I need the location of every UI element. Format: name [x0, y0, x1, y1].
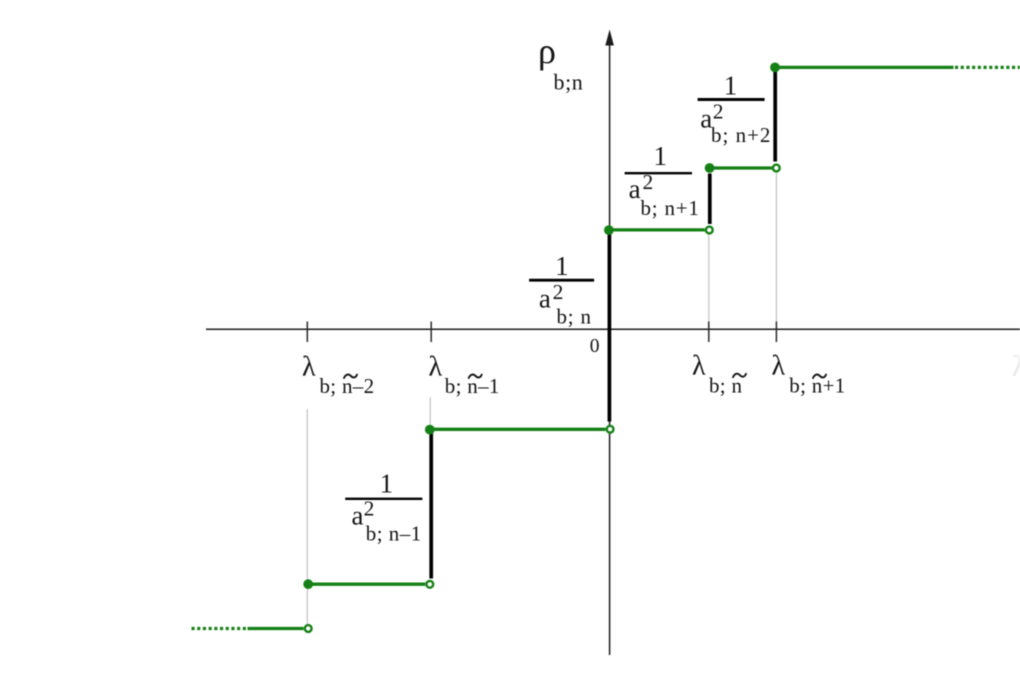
tick lambda b;n+1 — [775, 322, 777, 343]
svg-text:a: a — [629, 174, 641, 204]
step level n (above axis) — [609, 228, 705, 231]
closed endpoint at (lambda n-1, level n) — [425, 425, 435, 435]
gray riser line at lambda b;n+1 — [775, 173, 777, 322]
svg-text:2: 2 — [643, 170, 654, 194]
fraction 1/a^2 b;n — [529, 251, 594, 329]
gray drop line at lambda b;n-2 — [306, 409, 308, 624]
svg-text:ρ: ρ — [538, 31, 556, 71]
svg-text:a: a — [352, 501, 364, 531]
open endpoint at (lambda n-1, level n-1) — [426, 581, 433, 588]
step level n (below axis) — [430, 428, 606, 431]
svg-text:λ: λ — [692, 351, 706, 382]
closed endpoint at (lambda n, level n+1) — [705, 163, 715, 173]
svg-text:1: 1 — [654, 141, 668, 171]
tick lambda b;n-2 — [306, 322, 308, 343]
svg-text:1: 1 — [380, 469, 394, 499]
closed endpoint at (lambda n-2, level n-1) — [303, 579, 313, 589]
x-axis — [206, 328, 1020, 330]
svg-text:b; n–1: b; n–1 — [366, 522, 422, 546]
fraction 1/a^2 b;n-1 — [345, 469, 422, 546]
y-axis — [609, 33, 611, 655]
svg-text:2: 2 — [553, 280, 564, 304]
gray riser line at lambda b;n — [708, 235, 710, 322]
fraction 1/a^2 b;n+1 — [625, 141, 700, 220]
closed endpoint at (lambda n+1, level n+2) — [770, 63, 780, 73]
svg-text:b; n–1: b; n–1 — [445, 374, 500, 398]
svg-text:b; n+1: b; n+1 — [641, 196, 700, 220]
svg-text:b; n: b; n — [557, 305, 592, 329]
svg-text:λ: λ — [1012, 350, 1020, 383]
svg-text:b; n+1: b; n+1 — [789, 374, 845, 398]
fraction 1/a^2 b;n+2 — [698, 71, 772, 148]
svg-text:b; n: b; n — [709, 374, 742, 398]
svg-text:1: 1 — [555, 251, 569, 281]
svg-text:a: a — [539, 284, 551, 314]
svg-text:b;n: b;n — [554, 70, 584, 95]
jump segment at 0 — [608, 233, 612, 422]
open endpoint at (0, level n below axis) — [607, 426, 614, 433]
gray drop line at lambda b;n-1 — [429, 398, 431, 426]
svg-text:λ: λ — [772, 351, 786, 382]
svg-text:b; n–2: b; n–2 — [320, 374, 375, 398]
svg-text:b; n+2: b; n+2 — [711, 123, 771, 147]
step level n+2 dotted tail — [955, 66, 1020, 69]
open endpoint at (lambda n+1, level n+1) — [773, 165, 780, 172]
svg-text:0: 0 — [590, 336, 600, 357]
step level n-2 solid — [248, 627, 304, 630]
svg-text:λ: λ — [302, 352, 316, 383]
jump segment at lambda b;n-1 — [429, 434, 433, 579]
y-axis arrowhead — [605, 30, 614, 46]
svg-text:2: 2 — [713, 100, 724, 124]
open endpoint at (lambda n, level n) — [706, 227, 713, 234]
step level n-2 dotted lead-in — [192, 627, 249, 630]
svg-text:1: 1 — [724, 71, 738, 101]
jump segment at lambda b;n — [708, 174, 712, 225]
tick lambda b;n — [708, 322, 710, 343]
closed endpoint at (0, level n above axis) — [604, 225, 614, 235]
step level n+2 solid — [775, 66, 954, 69]
open endpoint at (lambda n-2, level n-2) — [305, 625, 312, 632]
svg-text:2: 2 — [364, 497, 375, 521]
step level n-1 — [308, 583, 425, 586]
step level n+1 — [710, 166, 772, 169]
svg-text:λ: λ — [429, 352, 443, 383]
tick lambda b;n-1 — [430, 322, 432, 343]
jump segment at lambda b;n+1 — [773, 72, 777, 162]
